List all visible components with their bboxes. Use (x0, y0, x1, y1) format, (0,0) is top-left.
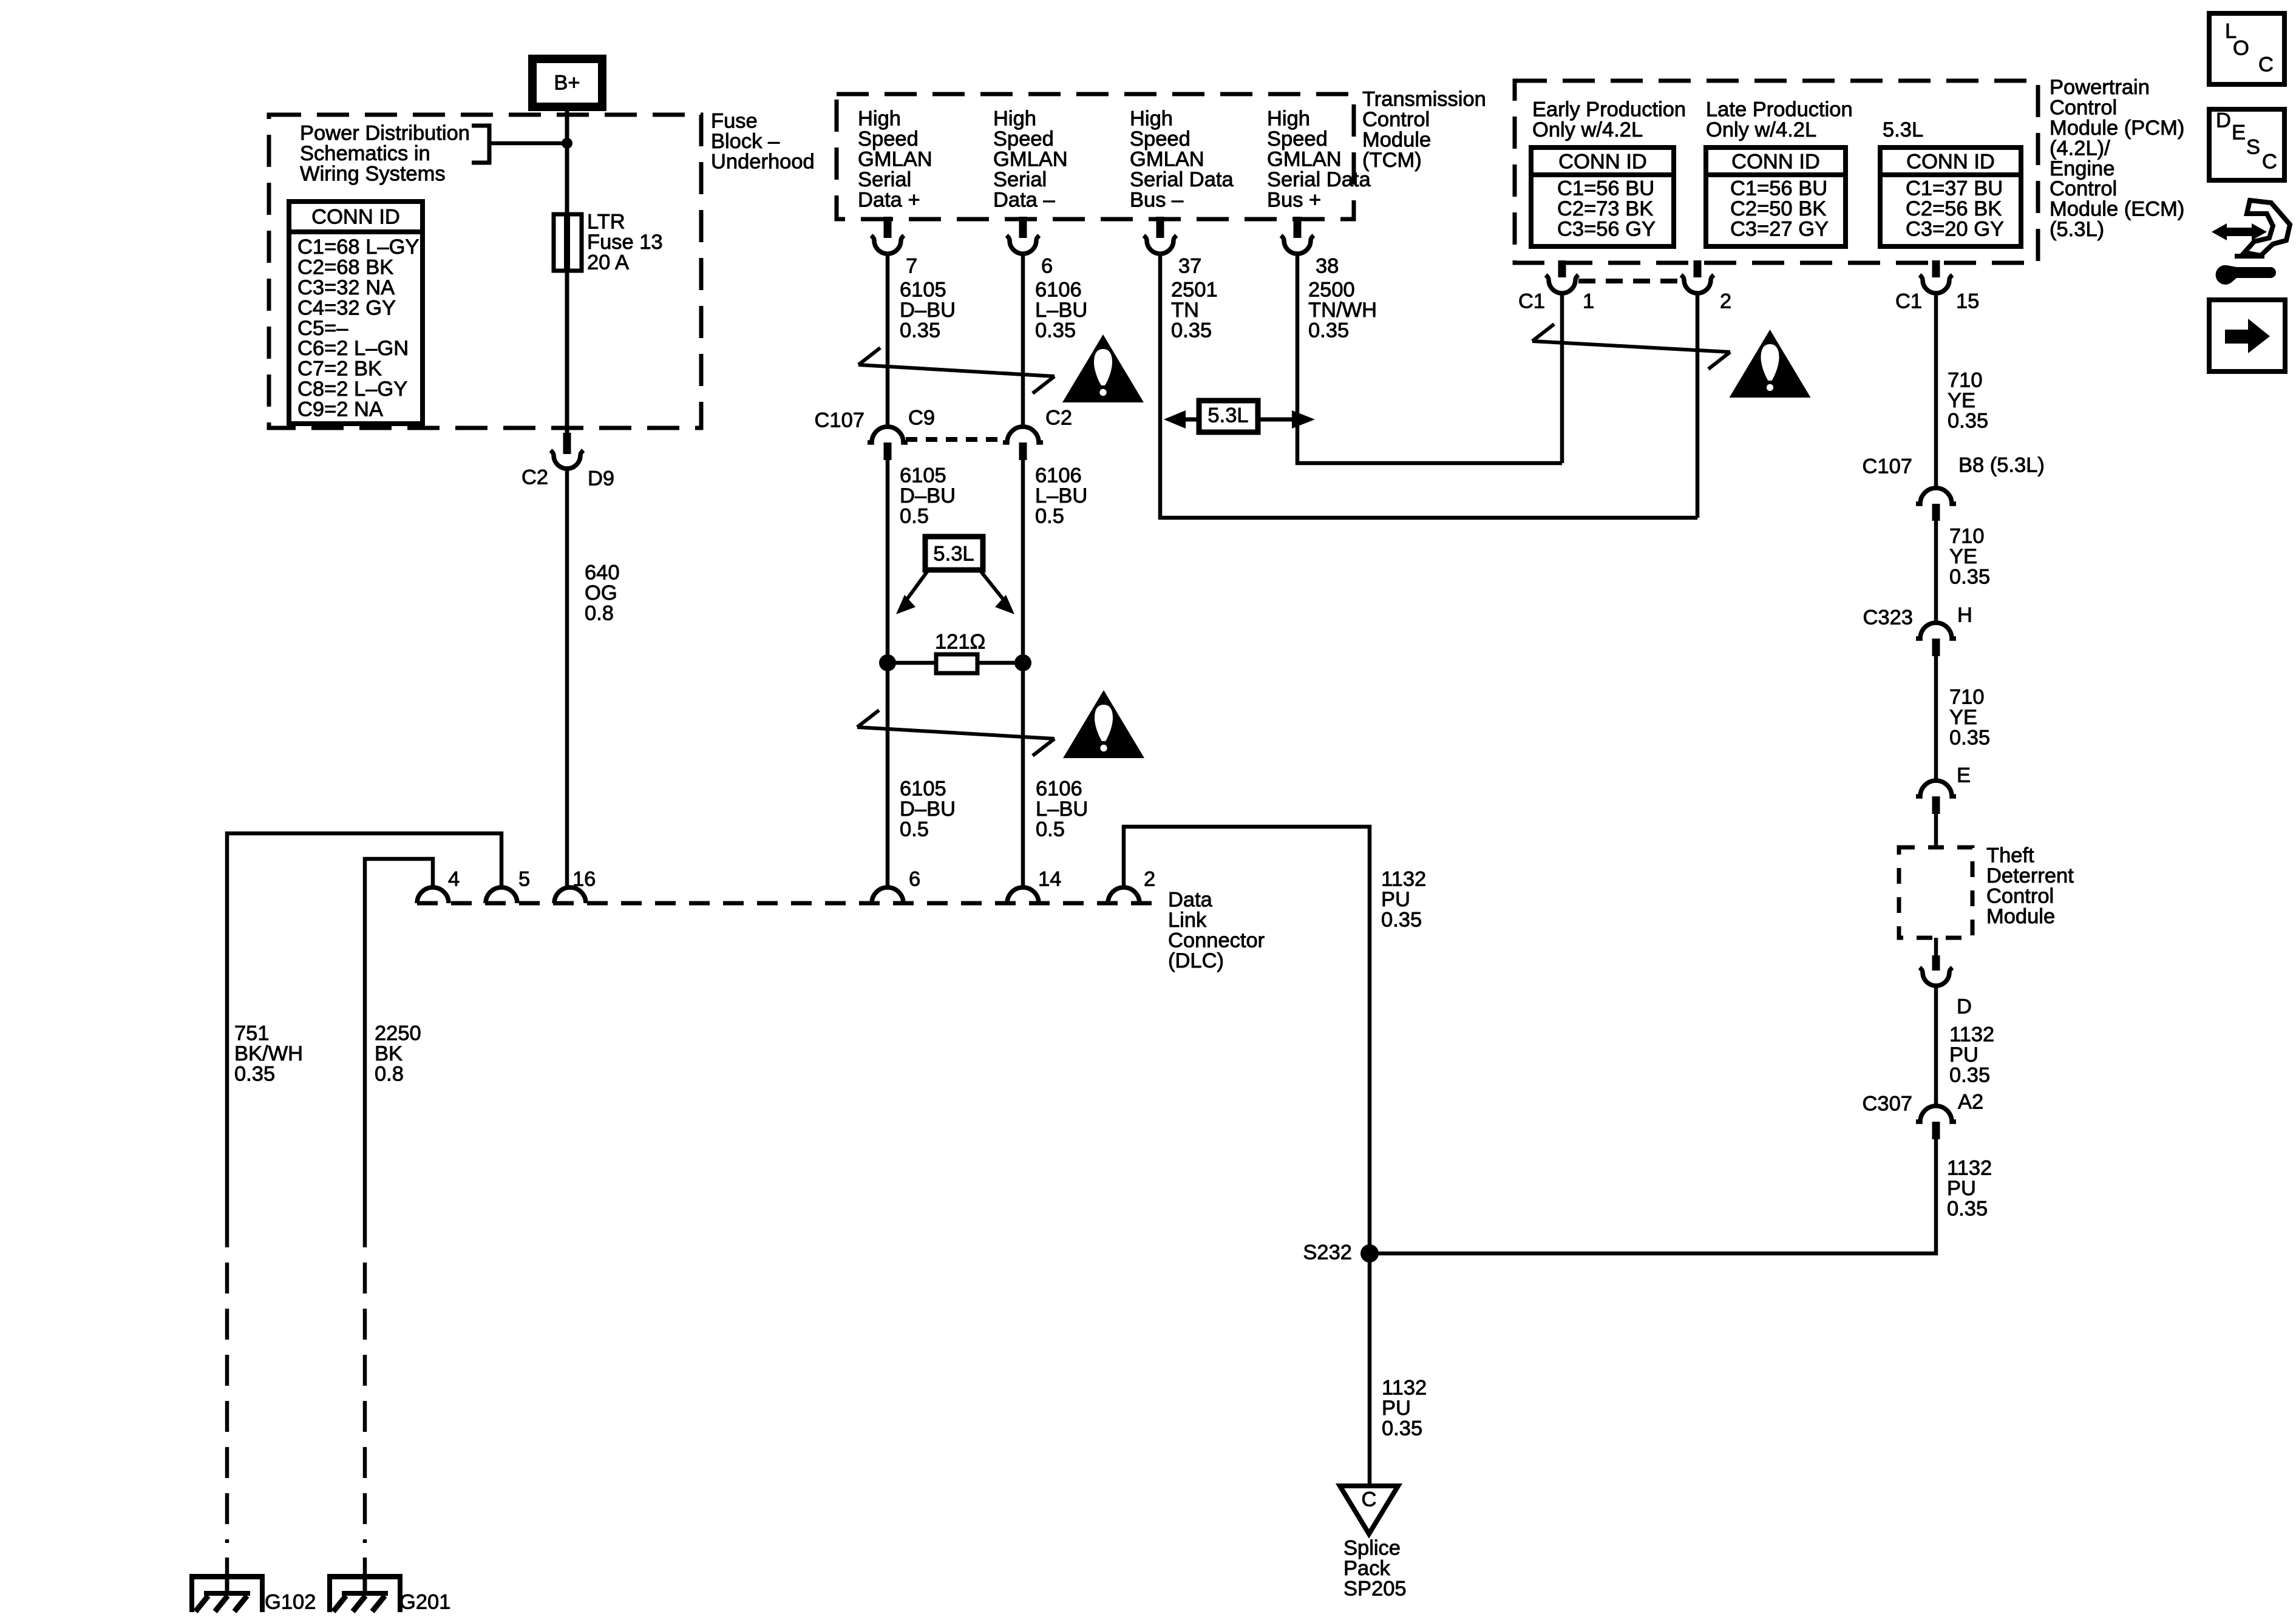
svg-text:BK: BK (375, 1042, 402, 1065)
svg-text:TN: TN (1171, 299, 1199, 322)
connector C107 B8 (1916, 488, 1956, 504)
svg-text:Powertrain: Powertrain (2050, 76, 2150, 99)
svg-text:OG: OG (585, 581, 617, 605)
svg-text:1132: 1132 (1947, 1157, 1992, 1180)
label 6106 L-BU 0.5 lower (1036, 778, 1088, 841)
svg-text:5.3L: 5.3L (933, 543, 974, 566)
label 2250 BK 0.8 (375, 1022, 421, 1086)
junction S dot left (879, 654, 896, 671)
label 6106 L-BU 0.5 (1035, 464, 1087, 528)
svg-text:710: 710 (1949, 686, 1985, 709)
svg-text:A2: A2 (1958, 1091, 1983, 1114)
svg-text:E: E (2232, 121, 2246, 144)
TCM pin connector 6 (1007, 236, 1039, 254)
svg-text:C9: C9 (908, 407, 935, 430)
svg-text:0.5: 0.5 (1035, 505, 1064, 528)
TCM pin connector 38 (1281, 236, 1314, 254)
svg-text:D: D (1957, 995, 1972, 1019)
svg-text:C307: C307 (1863, 1093, 1912, 1116)
powertrain control module PCM dashed box (1515, 81, 2038, 263)
svg-text:Serial: Serial (993, 168, 1047, 191)
svg-text:6106: 6106 (1035, 279, 1082, 302)
splice S232 (1360, 1244, 1379, 1263)
wire PCM pin2 down (1696, 293, 1700, 518)
svg-text:C2=68 BK: C2=68 BK (297, 256, 393, 279)
svg-text:PU: PU (1382, 1397, 1411, 1420)
svg-text:Only w/4.2L: Only w/4.2L (1706, 118, 1816, 141)
svg-text:C: C (2258, 53, 2274, 76)
svg-text:C1=68 L–GY: C1=68 L–GY (297, 236, 419, 259)
svg-text:YE: YE (1949, 706, 1977, 729)
svg-text:GMLAN: GMLAN (993, 148, 1068, 171)
svg-text:C2=56 BK: C2=56 BK (1906, 197, 2002, 220)
svg-text:C1=37 BU: C1=37 BU (1906, 177, 2003, 200)
svg-text:H: H (1957, 604, 1972, 627)
wire 640 OG 0.8 to DLC pin 16 (565, 469, 569, 888)
svg-text:Bus –: Bus – (1130, 188, 1184, 211)
svg-text:4: 4 (448, 868, 460, 891)
icon right arrow box (2209, 300, 2285, 371)
label circuit 6105 D-BU 0.35 (900, 279, 956, 342)
svg-text:0.5: 0.5 (900, 818, 929, 841)
svg-text:16: 16 (572, 868, 596, 891)
svg-text:0.35: 0.35 (234, 1063, 275, 1086)
svg-text:Fuse: Fuse (711, 110, 758, 133)
svg-text:O: O (2233, 36, 2249, 59)
svg-text:C1: C1 (1518, 290, 1545, 313)
svg-text:(4.2L)/: (4.2L)/ (2050, 137, 2110, 160)
svg-text:PU: PU (1947, 1177, 1976, 1200)
label circuit 6106 L-BU 0.35 (1035, 279, 1087, 342)
wire to theft module (1934, 813, 1938, 849)
svg-text:Deterrent: Deterrent (1986, 864, 2074, 887)
wire 2500 TN/WH to PCM pin 1 (1297, 253, 1562, 463)
warning triangle 1 (1062, 334, 1144, 402)
svg-text:Serial: Serial (858, 168, 911, 191)
warning triangle 2 (1063, 690, 1144, 758)
wire 2250 BK dashed (363, 1216, 367, 1543)
svg-text:Control: Control (1362, 108, 1430, 131)
PCM pin stub (1932, 260, 1940, 277)
svg-text:S: S (2246, 135, 2260, 158)
label wire 640 OG 0.8 (585, 561, 620, 625)
label early production (1532, 98, 1686, 141)
svg-text:S232: S232 (1303, 1241, 1352, 1264)
pin D stub (1932, 955, 1940, 971)
icon DESC (2209, 109, 2284, 180)
svg-text:C1: C1 (1895, 290, 1922, 313)
label 751 BK/WH 0.35 (234, 1022, 303, 1086)
note power distribution schematics (300, 122, 470, 186)
connector C323 H (1916, 623, 1956, 639)
svg-text:C6=2 L–GN: C6=2 L–GN (297, 337, 409, 360)
svg-text:0.35: 0.35 (1949, 1064, 1990, 1087)
PCM pin stub (1694, 260, 1702, 277)
splice pack triangle C (1340, 1486, 1398, 1534)
connector D (1920, 968, 1952, 986)
svg-text:6106: 6106 (1035, 464, 1082, 487)
svg-text:Module: Module (1362, 129, 1431, 152)
svg-text:710: 710 (1948, 369, 1983, 392)
label 710 YE 0.35 third (1949, 686, 1990, 750)
svg-text:C1=56 BU: C1=56 BU (1557, 177, 1654, 200)
svg-text:0.35: 0.35 (1308, 319, 1349, 342)
label 710 YE 0.35 first (1948, 369, 1988, 433)
svg-text:0.35: 0.35 (1947, 1198, 1988, 1221)
svg-text:Module: Module (1986, 905, 2055, 928)
svg-text:CONN ID: CONN ID (1558, 151, 1647, 174)
svg-text:C2: C2 (521, 466, 548, 489)
DLC pin connector 14 (1007, 887, 1039, 903)
connector C107 C9 (868, 427, 908, 442)
svg-text:E: E (1957, 764, 1971, 787)
svg-text:SP205: SP205 (1343, 1578, 1407, 1601)
icon LOC (2209, 13, 2284, 84)
svg-text:1132: 1132 (1381, 868, 1426, 891)
connector pin into C2/D9 (563, 433, 571, 454)
label TCM pin high speed gmlan serial data minus (993, 107, 1068, 212)
CONN ID table 5.3L (1880, 147, 2021, 246)
svg-text:0.8: 0.8 (585, 602, 614, 625)
svg-text:Late Production: Late Production (1706, 98, 1853, 121)
svg-text:Block –: Block – (711, 130, 780, 153)
svg-text:C: C (2262, 150, 2277, 173)
svg-text:Control: Control (2050, 177, 2117, 200)
svg-text:6105: 6105 (900, 464, 946, 487)
svg-text:Power Distribution: Power Distribution (300, 122, 470, 145)
PCM pin connector (1546, 275, 1578, 293)
label circuit 2500 TN/WH 0.35 (1308, 279, 1377, 342)
svg-text:C323: C323 (1863, 606, 1913, 629)
svg-text:C4=32 GY: C4=32 GY (297, 296, 396, 319)
CONN ID table late (1706, 147, 1846, 246)
label circuit 2501 TN 0.35 (1171, 279, 1218, 342)
svg-text:0.5: 0.5 (900, 505, 929, 528)
svg-text:C9=2 NA: C9=2 NA (297, 398, 383, 421)
svg-text:710: 710 (1949, 525, 1985, 548)
svg-text:CONN ID: CONN ID (1906, 151, 1995, 174)
connector C107 C2 (1003, 427, 1043, 442)
label 1132 PU 0.35 lower (1382, 1377, 1427, 1440)
svg-text:Wiring Systems: Wiring Systems (300, 163, 446, 186)
TCM pin stub 7 (884, 217, 892, 238)
junction node on B+ feed (562, 138, 572, 149)
DLC pin connector 6 (872, 887, 903, 903)
connector C2 D9 fuse block (551, 450, 583, 469)
wire 2250 BK solid (365, 859, 433, 1216)
5.3L tag with double arrow (1164, 401, 1315, 432)
svg-text:C3=20 GY: C3=20 GY (1906, 218, 2004, 241)
svg-text:C107: C107 (1863, 455, 1912, 478)
wire 6106 upper segment (1021, 253, 1025, 427)
label 6105 D-BU 0.5 (900, 464, 956, 528)
svg-text:Schematics in: Schematics in (300, 142, 430, 165)
wire PCM pin1 down (1560, 293, 1564, 463)
svg-text:6: 6 (909, 868, 920, 891)
svg-text:YE: YE (1948, 389, 1975, 412)
junction S dot right (1014, 654, 1031, 671)
svg-text:Control: Control (2050, 97, 2117, 120)
label TCM pin high speed gmlan serial data plus (858, 107, 932, 212)
svg-text:Speed: Speed (1267, 127, 1328, 151)
connector E (1916, 781, 1956, 796)
wire 6105 lower (886, 459, 890, 888)
label TCM pin serial data bus minus (1130, 107, 1234, 212)
svg-text:Data –: Data – (993, 188, 1055, 211)
svg-text:D–BU: D–BU (900, 299, 956, 322)
DLC pin connector 16 (554, 887, 586, 903)
dashed link C107 (906, 437, 1008, 442)
svg-text:Speed: Speed (993, 127, 1054, 151)
wire stub to G201 (363, 1558, 367, 1576)
wire 6105 upper segment (886, 253, 890, 427)
svg-text:High: High (1130, 107, 1173, 131)
svg-text:L–BU: L–BU (1035, 299, 1087, 322)
svg-text:Data +: Data + (858, 188, 920, 211)
CONN ID table fuse block (289, 202, 423, 424)
warning triangle 3 (1730, 330, 1811, 398)
svg-text:High: High (993, 107, 1036, 131)
wire bracket to B+ node (489, 141, 563, 146)
svg-text:15: 15 (1956, 290, 1979, 313)
svg-text:6105: 6105 (900, 778, 946, 801)
svg-text:C2: C2 (1045, 407, 1072, 430)
label 1132 PU 0.35 upper (1381, 868, 1426, 932)
svg-text:Pack: Pack (1343, 1557, 1390, 1580)
ground G201 (327, 1574, 402, 1612)
svg-text:640: 640 (585, 561, 620, 585)
svg-text:2501: 2501 (1171, 279, 1218, 302)
svg-text:Bus +: Bus + (1267, 188, 1321, 211)
label 6105 D-BU 0.5 lower (900, 778, 956, 841)
theft deterrent control module dashed box (1899, 847, 1972, 938)
5.3L tag box with arrows (896, 537, 1014, 614)
svg-text:5.3L: 5.3L (1883, 118, 1923, 141)
svg-text:6: 6 (1041, 255, 1053, 278)
svg-text:(TCM): (TCM) (1362, 149, 1422, 172)
svg-text:Engine: Engine (2050, 157, 2114, 180)
label data link connector DLC (1168, 889, 1265, 972)
svg-text:0.35: 0.35 (1949, 727, 1990, 750)
label late production (1706, 98, 1853, 141)
label LTR Fuse 13 20 A (587, 211, 663, 274)
svg-text:14: 14 (1038, 868, 1061, 891)
dashed link PCM pins 1-2 (1578, 279, 1682, 283)
TCM pin connector 7 (871, 236, 904, 254)
svg-text:Control: Control (1986, 885, 2054, 908)
svg-text:B8 (5.3L): B8 (5.3L) (1958, 454, 2045, 477)
svg-text:Early Production: Early Production (1532, 98, 1686, 121)
svg-text:0.35: 0.35 (1035, 319, 1076, 342)
TCM pin stub 38 (1294, 217, 1302, 238)
label TCM (1362, 88, 1486, 172)
svg-text:D: D (2216, 109, 2231, 132)
svg-text:GMLAN: GMLAN (858, 148, 932, 171)
svg-text:6106: 6106 (1036, 778, 1082, 801)
svg-text:Speed: Speed (858, 127, 919, 151)
svg-text:0.8: 0.8 (375, 1063, 404, 1086)
svg-text:C2=50 BK: C2=50 BK (1730, 197, 1826, 220)
transmission control module TCM dashed box (837, 94, 1354, 219)
PCM pin connector (1920, 275, 1952, 293)
svg-text:0.35: 0.35 (1171, 319, 1212, 342)
svg-text:D9: D9 (588, 467, 614, 490)
wire 710 YE segment 2 (1934, 520, 1938, 623)
wire stub to G102 (225, 1558, 229, 1576)
crossing symbol 1 (858, 348, 1055, 393)
DLC pin connector 2 (1108, 887, 1140, 903)
label TCM pin serial data bus plus (1267, 107, 1371, 212)
svg-text:2: 2 (1144, 868, 1155, 891)
svg-text:High: High (1267, 107, 1310, 131)
svg-text:YE: YE (1949, 545, 1977, 568)
svg-text:Module (ECM): Module (ECM) (2050, 198, 2184, 221)
svg-text:Serial Data: Serial Data (1130, 168, 1234, 191)
wire B+ through fuse (565, 107, 569, 436)
wire 751 BK/WH dashed (225, 1216, 229, 1543)
svg-text:B+: B+ (554, 72, 580, 95)
svg-text:C3=32 NA: C3=32 NA (297, 276, 395, 299)
svg-text:D–BU: D–BU (900, 484, 956, 507)
svg-text:CONN ID: CONN ID (1731, 151, 1820, 174)
svg-text:Serial Data: Serial Data (1267, 168, 1371, 191)
svg-text:C3=56 GY: C3=56 GY (1557, 218, 1656, 241)
PCM pin stub (1558, 260, 1566, 277)
crossing symbol 2 (857, 710, 1055, 756)
svg-text:G201: G201 (399, 1591, 450, 1614)
svg-text:5.3L: 5.3L (1207, 404, 1248, 427)
svg-text:C2=73 BK: C2=73 BK (1557, 197, 1653, 220)
svg-text:TN/WH: TN/WH (1308, 299, 1377, 322)
svg-text:0.35: 0.35 (1382, 1417, 1422, 1440)
svg-text:6105: 6105 (900, 279, 946, 302)
svg-text:C7=2 BK: C7=2 BK (297, 358, 382, 381)
svg-text:2250: 2250 (375, 1022, 421, 1045)
svg-text:Speed: Speed (1130, 127, 1190, 151)
svg-text:G102: G102 (265, 1591, 316, 1614)
svg-text:D–BU: D–BU (900, 798, 956, 821)
svg-text:Splice: Splice (1343, 1537, 1401, 1560)
svg-text:Module (PCM): Module (PCM) (2050, 117, 2184, 140)
svg-text:PU: PU (1949, 1043, 1978, 1066)
DLC dashed connector line (417, 901, 1163, 906)
PCM pin connector (1681, 275, 1714, 293)
svg-text:GMLAN: GMLAN (1130, 148, 1204, 171)
resistor 121 ohm (936, 654, 977, 673)
svg-text:Underhood: Underhood (711, 151, 815, 174)
label 1132 PU 0.35 col right 2 (1947, 1157, 1992, 1221)
svg-text:20 A: 20 A (587, 251, 629, 274)
svg-text:1132: 1132 (1382, 1377, 1427, 1400)
svg-text:L–BU: L–BU (1035, 484, 1087, 507)
svg-text:121Ω: 121Ω (935, 631, 985, 654)
svg-text:0.35: 0.35 (1949, 566, 1990, 589)
svg-text:2: 2 (1720, 290, 1731, 313)
TCM pin connector 37 (1144, 236, 1177, 254)
svg-text:Link: Link (1168, 909, 1207, 932)
svg-text:High: High (858, 107, 901, 131)
label PCM ECM (2050, 76, 2184, 241)
TCM pin stub 6 (1019, 217, 1027, 238)
label theft deterrent control module (1986, 844, 2074, 928)
svg-text:CONN ID: CONN ID (311, 206, 400, 229)
svg-text:C8=2 L–GY: C8=2 L–GY (297, 378, 407, 401)
fuse block underhood dashed box (269, 115, 701, 428)
wire from theft module (1934, 938, 1938, 958)
label splice pack SP205 (1343, 1537, 1407, 1601)
crossing symbol 3 (1532, 324, 1730, 369)
CONN ID table early (1531, 147, 1674, 246)
icon connector arrows wrench (2212, 200, 2290, 285)
svg-text:0.35: 0.35 (1948, 410, 1988, 433)
svg-text:Data: Data (1168, 889, 1213, 912)
svg-text:2500: 2500 (1308, 279, 1355, 302)
TCM pin stub 37 (1156, 217, 1164, 238)
fuse LTR Fuse 13 20A (554, 214, 582, 271)
svg-text:C: C (1362, 1488, 1377, 1511)
svg-text:C107: C107 (815, 409, 864, 432)
svg-text:0.5: 0.5 (1036, 818, 1065, 841)
B+ battery feed symbol (532, 59, 602, 107)
bracket for power distribution note (472, 126, 489, 163)
wire 751 BK/WH solid (227, 833, 501, 1216)
DLC pin connector 5 (486, 887, 517, 903)
wire 1132 PU segment 1 (1934, 986, 1938, 1107)
svg-text:PU: PU (1381, 888, 1410, 911)
svg-text:Fuse 13: Fuse 13 (587, 231, 663, 254)
svg-text:(5.3L): (5.3L) (2050, 218, 2104, 241)
svg-text:Only w/4.2L: Only w/4.2L (1532, 118, 1643, 141)
svg-text:GMLAN: GMLAN (1267, 148, 1342, 171)
svg-text:1: 1 (1583, 290, 1594, 313)
svg-text:C1=56 BU: C1=56 BU (1730, 177, 1827, 200)
wire 710 YE segment 1 (1934, 293, 1938, 489)
svg-text:Transmission: Transmission (1362, 88, 1486, 111)
svg-text:7: 7 (906, 255, 917, 278)
connector C307 A2 (1916, 1106, 1956, 1122)
svg-text:(DLC): (DLC) (1168, 949, 1224, 972)
label 1132 PU 0.35 col right 1 (1949, 1023, 1994, 1087)
label 710 YE 0.35 second (1949, 525, 1990, 589)
svg-text:BK/WH: BK/WH (234, 1042, 303, 1065)
svg-text:1132: 1132 (1949, 1023, 1994, 1046)
svg-text:L–BU: L–BU (1036, 798, 1088, 821)
ground G102 (189, 1574, 265, 1612)
wire 710 YE segment 3 (1934, 656, 1938, 781)
svg-text:C3=27 GY: C3=27 GY (1730, 218, 1829, 241)
svg-text:0.35: 0.35 (900, 319, 940, 342)
wire 1132 PU to S232 (1370, 1139, 1936, 1253)
svg-text:0.35: 0.35 (1381, 909, 1422, 932)
wire 2501 TN to PCM pin 2 (1160, 253, 1697, 518)
svg-text:38: 38 (1316, 255, 1339, 278)
svg-text:C5=–: C5=– (297, 317, 348, 340)
DLC pin connector 4 (417, 887, 449, 903)
svg-text:Connector: Connector (1168, 929, 1265, 952)
svg-text:5: 5 (518, 868, 530, 891)
wire 6106 lower (1021, 459, 1025, 888)
wire 1132 PU from DLC pin 2 (1124, 827, 1370, 1484)
svg-text:LTR: LTR (587, 211, 625, 234)
wire resistor branch (888, 661, 1023, 665)
svg-text:37: 37 (1178, 255, 1201, 278)
svg-text:751: 751 (234, 1022, 270, 1045)
svg-text:Theft: Theft (1986, 844, 2034, 867)
